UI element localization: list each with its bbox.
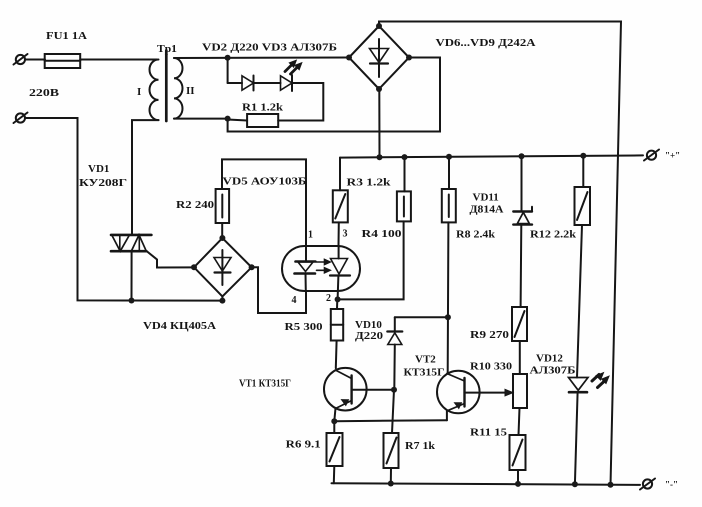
svg-text:R2 240: R2 240 (176, 199, 215, 211)
diode VD2 (242, 76, 254, 91)
node plus rail / R12 (580, 153, 586, 159)
resistor R4 (397, 191, 411, 221)
resistor R5 (331, 309, 343, 341)
node bottom rail / VD12 (572, 481, 578, 487)
svg-text:3: 3 (343, 229, 348, 240)
node plus rail / R8 (446, 154, 452, 160)
transformer core (165, 51, 168, 122)
optocoupler VD5 body (282, 246, 360, 291)
svg-text:4: 4 (292, 295, 297, 306)
plus rail (340, 155, 643, 157)
wire VD2 to VD3 (254, 82, 281, 84)
emitter rail (334, 420, 447, 421)
wire R5 to VT1 collector (335, 341, 338, 369)
wire triac gate to VD4 (147, 251, 195, 268)
svg-text:1: 1 (308, 230, 313, 241)
wire VD4 top to R2 (221, 223, 223, 238)
wiper R10 to VT2 base (465, 389, 514, 396)
wire pin3 (338, 222, 340, 246)
wire VD3 right down to R1 (278, 83, 323, 121)
transistor VT1 (324, 368, 394, 421)
node VD4 bottom corner (219, 298, 225, 304)
svg-text:КТ315Г: КТ315Г (404, 367, 445, 379)
wire R3 top (339, 158, 341, 191)
wire R4 top (404, 157, 406, 191)
svg-text:АЛ307Б: АЛ307Б (530, 365, 576, 377)
wire secondary bottom (174, 118, 228, 120)
svg-text:VD1: VD1 (88, 163, 109, 175)
node VT1 emitter / R6 (331, 418, 337, 424)
wire R4 bottom to pin2 node (338, 221, 404, 299)
svg-text:Д220: Д220 (355, 330, 384, 342)
svg-text:II: II (186, 85, 195, 97)
wire R12 top (582, 156, 584, 187)
resistor R12 (575, 187, 591, 225)
wire secondary top to bridge (174, 57, 349, 60)
bridge VD6-VD9 (349, 26, 409, 89)
resistor R11 (510, 435, 526, 470)
wire input1 to fuse (25, 59, 45, 61)
wire node A down (227, 58, 229, 83)
svg-text:"+": "+" (665, 151, 680, 161)
node VD1 / line2 (129, 298, 135, 304)
svg-text:I: I (137, 86, 141, 98)
svg-text:R12 2.2k: R12 2.2k (530, 229, 577, 241)
transistor VT2 (437, 371, 480, 421)
resistor R3 (333, 190, 348, 222)
LED VD3 light arrows (285, 60, 302, 74)
wire R9-R10 (519, 341, 521, 374)
wire VT1 base to R7 (392, 390, 394, 433)
terminal input2 (14, 113, 28, 124)
LED VD12 (569, 378, 589, 485)
bridge VD4 (194, 238, 252, 301)
transformer secondary winding II (174, 58, 182, 119)
wire bridge top to right edge down (379, 22, 621, 486)
wire bridge bottom to plus rail (378, 89, 380, 157)
LED VD3 (281, 75, 293, 91)
opto arrows (317, 260, 331, 273)
svg-text:VD6...VD9 Д242А: VD6...VD9 Д242А (436, 37, 536, 49)
wire R12 to VD12 (577, 225, 582, 378)
svg-text:Д814А: Д814А (470, 204, 504, 216)
node VD4 right corner (249, 264, 255, 270)
wire VD10 to VT2 collector line (395, 316, 448, 318)
node secondary bottom / R1 branch (225, 116, 231, 122)
svg-text:2: 2 (326, 293, 331, 304)
wire R5 top (336, 299, 338, 309)
svg-text:R7 1k: R7 1k (405, 440, 436, 452)
node plus rail / R4 (402, 154, 408, 160)
node bottom rail / R11 (515, 481, 521, 487)
svg-text:КУ208Г: КУ208Г (79, 177, 127, 189)
transformer Tp1 primary winding I (150, 60, 159, 121)
bottom rail (332, 483, 641, 485)
svg-text:R8 2.4k: R8 2.4k (456, 229, 496, 241)
svg-text:VD5 АОУ103Б: VD5 АОУ103Б (223, 176, 307, 188)
wire fuse to primary (80, 59, 157, 61)
zener VD11 (513, 156, 532, 307)
wire R6 top (333, 421, 335, 433)
LED VD12 light arrows (592, 373, 609, 388)
triac VD1 (111, 235, 151, 301)
node pin2 / R4 / R5 (335, 296, 341, 302)
node bridge plus bottom (376, 86, 382, 92)
svg-text:R10 330: R10 330 (470, 361, 513, 373)
node bottom rail / minus line (608, 482, 614, 488)
wire R11 bottom (517, 470, 519, 484)
svg-text:VT1 КТ315Г: VT1 КТ315Г (239, 378, 291, 390)
resistor R6 (327, 433, 343, 466)
wire pin4 to VD4 right (252, 267, 306, 313)
fuse FU1 (45, 54, 80, 68)
diode VD10 (387, 317, 402, 389)
wire R8 bottom to VT2 collector (447, 222, 450, 373)
svg-text:VD2 Д220 VD3 АЛ307Б: VD2 Д220 VD3 АЛ307Б (202, 42, 337, 54)
terminal input1 (14, 54, 28, 65)
svg-text:"-": "-" (665, 480, 678, 490)
node VD4 top corner (219, 235, 225, 241)
resistor R8 (442, 189, 456, 222)
svg-text:R6 9.1: R6 9.1 (286, 439, 321, 451)
wire to VD2 (228, 82, 242, 84)
wire R8 top (448, 157, 450, 189)
svg-text:R9 270: R9 270 (470, 329, 510, 341)
wire R2 top to pin1 (222, 159, 306, 261)
node bridge AC right (406, 55, 412, 61)
terminal plus (644, 150, 659, 161)
wire R10-R11 (519, 408, 520, 435)
node R8 / VD10 / VT2 collector (445, 314, 451, 320)
svg-text:VT2: VT2 (415, 354, 436, 366)
svg-text:FU1 1A: FU1 1A (46, 30, 87, 42)
node VT1 base / VD10 / R7 (391, 387, 397, 393)
resistor R7 (384, 433, 399, 468)
resistor R1 (247, 114, 278, 127)
opto LED (295, 262, 316, 292)
wire R1 left (228, 120, 248, 121)
wire R7 bottom (390, 468, 392, 484)
wire R6 bottom (333, 466, 336, 483)
node plus rail / bridge (377, 154, 383, 160)
node VD4 left corner (191, 264, 197, 270)
svg-text:Tp1: Tp1 (157, 43, 177, 55)
svg-text:VD12: VD12 (536, 353, 563, 365)
resistor R9 (512, 307, 527, 341)
potentiometer R10 (513, 374, 527, 408)
terminal minus (640, 479, 655, 490)
resistor R2 (216, 189, 230, 223)
wire primary bottom to VD1 (132, 120, 159, 235)
svg-text:R3 1.2k: R3 1.2k (347, 177, 392, 189)
node bottom rail / R7 (388, 481, 394, 487)
svg-text:VD4 КЦ405А: VD4 КЦ405А (143, 320, 216, 332)
svg-text:220В: 220В (29, 87, 60, 99)
node bridge AC left (346, 55, 352, 61)
svg-text:R5 300: R5 300 (285, 321, 324, 333)
node bridge minus top (376, 23, 382, 29)
svg-text:R1 1.2k: R1 1.2k (242, 102, 284, 114)
svg-text:R4 100: R4 100 (362, 228, 403, 240)
svg-text:VD11: VD11 (473, 192, 499, 204)
opto photothyristor (330, 246, 350, 299)
svg-text:R11 15: R11 15 (470, 427, 508, 439)
wire return to bridge right (228, 58, 440, 132)
node plus rail / VD11 (519, 153, 525, 159)
node secondary top / VD2 branch (225, 55, 231, 61)
wire input2 line (25, 118, 222, 301)
